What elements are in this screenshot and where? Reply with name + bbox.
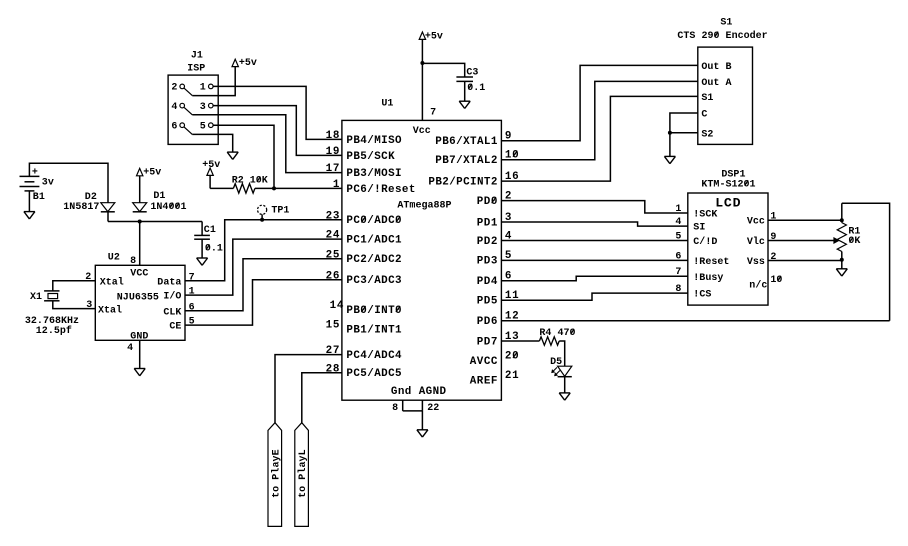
svg-text:PD1: PD1	[477, 217, 498, 229]
svg-text:!SCK: !SCK	[693, 210, 717, 221]
svg-text:+5v: +5v	[143, 167, 161, 178]
svg-text:Vss: Vss	[747, 257, 765, 268]
svg-text:5: 5	[200, 121, 206, 132]
svg-text:ISP: ISP	[187, 64, 205, 75]
svg-text:PC4/ADC4: PC4/ADC4	[346, 350, 402, 362]
svg-text:PB0/INT0: PB0/INT0	[346, 305, 401, 317]
svg-text:22: 22	[427, 403, 439, 414]
svg-text:8: 8	[130, 256, 136, 267]
svg-text:PC5/ADC5: PC5/ADC5	[346, 368, 401, 380]
svg-text:NJU6355: NJU6355	[117, 293, 159, 304]
svg-text:PC6/!Reset: PC6/!Reset	[346, 184, 415, 196]
svg-text:0.1: 0.1	[467, 83, 485, 94]
svg-text:!Reset: !Reset	[693, 257, 729, 268]
svg-text:LCD: LCD	[715, 196, 740, 211]
svg-text:27: 27	[326, 345, 340, 357]
svg-text:PB6/XTAL1: PB6/XTAL1	[435, 136, 498, 148]
svg-text:PB7/XTAL2: PB7/XTAL2	[435, 155, 497, 167]
svg-text:23: 23	[326, 210, 340, 222]
svg-text:VCC: VCC	[130, 269, 148, 280]
svg-text:PB1/INT1: PB1/INT1	[346, 324, 402, 336]
svg-text:14: 14	[330, 300, 344, 312]
svg-text:4: 4	[171, 102, 177, 113]
svg-text:U2: U2	[108, 253, 120, 264]
svg-text:8: 8	[392, 403, 398, 414]
svg-text:28: 28	[326, 363, 340, 375]
svg-text:Vcc: Vcc	[413, 126, 431, 137]
svg-text:PB2/PCINT2: PB2/PCINT2	[428, 176, 497, 188]
svg-text:5: 5	[189, 317, 195, 328]
svg-text:1: 1	[189, 287, 195, 298]
svg-text:PD2: PD2	[477, 236, 498, 248]
svg-text:CE: CE	[169, 322, 181, 333]
svg-text:Data: Data	[157, 277, 181, 288]
svg-text:SI: SI	[693, 223, 705, 234]
svg-text:1N5817: 1N5817	[63, 202, 99, 213]
svg-text:Gnd AGND: Gnd AGND	[391, 386, 447, 398]
svg-text:3v: 3v	[42, 177, 54, 188]
svg-text:15: 15	[326, 320, 340, 332]
svg-text:7: 7	[189, 272, 195, 283]
svg-text:S1: S1	[720, 17, 732, 28]
svg-text:Out A: Out A	[701, 78, 731, 89]
svg-text:4: 4	[127, 343, 133, 354]
svg-text:PC1/ADC1: PC1/ADC1	[346, 235, 402, 247]
svg-text:0.1: 0.1	[205, 244, 223, 255]
svg-text:PD0: PD0	[477, 196, 498, 208]
svg-text:C3: C3	[466, 68, 478, 79]
svg-text:X1: X1	[30, 292, 42, 303]
svg-text:6: 6	[171, 121, 177, 132]
svg-text:24: 24	[326, 230, 340, 242]
svg-text:R4 470: R4 470	[539, 328, 575, 339]
svg-text:18: 18	[326, 130, 340, 142]
svg-text:PC0/ADC0: PC0/ADC0	[346, 215, 401, 227]
svg-text:1: 1	[333, 179, 340, 191]
svg-text:AVCC: AVCC	[470, 356, 498, 368]
svg-text:D1: D1	[153, 191, 165, 202]
svg-text:21: 21	[505, 370, 519, 382]
svg-text:!Busy: !Busy	[693, 273, 723, 284]
svg-text:Out B: Out B	[701, 62, 731, 73]
svg-text:PD3: PD3	[477, 256, 498, 268]
svg-text:AREF: AREF	[470, 376, 498, 388]
svg-text:CTS 290 Encoder: CTS 290 Encoder	[677, 30, 767, 42]
svg-text:PD6: PD6	[477, 316, 498, 328]
svg-text:PB4/MISO: PB4/MISO	[346, 135, 402, 147]
svg-text:12.5pf: 12.5pf	[36, 325, 72, 337]
svg-text:Vcc: Vcc	[747, 217, 765, 228]
svg-text:6: 6	[189, 302, 195, 313]
svg-text:+5v: +5v	[202, 160, 220, 171]
svg-text:Xtal: Xtal	[100, 276, 124, 288]
svg-text:C/!D: C/!D	[693, 236, 717, 248]
svg-text:!CS: !CS	[693, 290, 711, 301]
svg-text:S2: S2	[701, 129, 713, 140]
svg-text:S1: S1	[701, 93, 713, 104]
svg-text:26: 26	[326, 270, 340, 282]
svg-text:I/O: I/O	[163, 291, 181, 303]
svg-text:C: C	[701, 110, 707, 121]
svg-text:3: 3	[200, 102, 206, 113]
svg-text:J1: J1	[191, 50, 203, 61]
svg-text:2: 2	[171, 83, 177, 94]
svg-text:to PlayL: to PlayL	[297, 449, 309, 498]
svg-text:C1: C1	[204, 225, 216, 236]
svg-text:PC3/ADC3: PC3/ADC3	[346, 275, 401, 287]
svg-text:1: 1	[200, 83, 206, 94]
svg-text:Vlc: Vlc	[747, 236, 765, 248]
svg-text:R2 10K: R2 10K	[232, 176, 268, 187]
svg-text:+5v: +5v	[239, 58, 257, 69]
svg-text:7: 7	[430, 107, 436, 118]
svg-text:1N4001: 1N4001	[150, 202, 186, 213]
svg-text:+: +	[32, 167, 38, 178]
svg-text:2: 2	[85, 272, 91, 283]
svg-text:CLK: CLK	[163, 307, 181, 318]
svg-text:U1: U1	[381, 98, 393, 109]
svg-text:n/c: n/c	[749, 280, 767, 292]
svg-text:to PlayE: to PlayE	[270, 449, 282, 498]
svg-text:PB5/SCK: PB5/SCK	[346, 151, 395, 163]
svg-text:ATmega88P: ATmega88P	[397, 201, 451, 212]
svg-text:PD7: PD7	[477, 336, 498, 348]
svg-text:PD4: PD4	[477, 276, 498, 288]
svg-text:25: 25	[326, 249, 340, 261]
svg-text:PC2/ADC2: PC2/ADC2	[346, 254, 401, 266]
svg-text:B1: B1	[33, 192, 45, 203]
svg-text:17: 17	[326, 163, 340, 175]
svg-text:TP1: TP1	[271, 206, 289, 217]
svg-text:+5v: +5v	[425, 32, 443, 43]
svg-text:19: 19	[326, 146, 340, 158]
svg-text:PD5: PD5	[477, 296, 498, 308]
svg-text:PB3/MOSI: PB3/MOSI	[346, 168, 401, 180]
svg-text:Xtal: Xtal	[98, 304, 122, 316]
